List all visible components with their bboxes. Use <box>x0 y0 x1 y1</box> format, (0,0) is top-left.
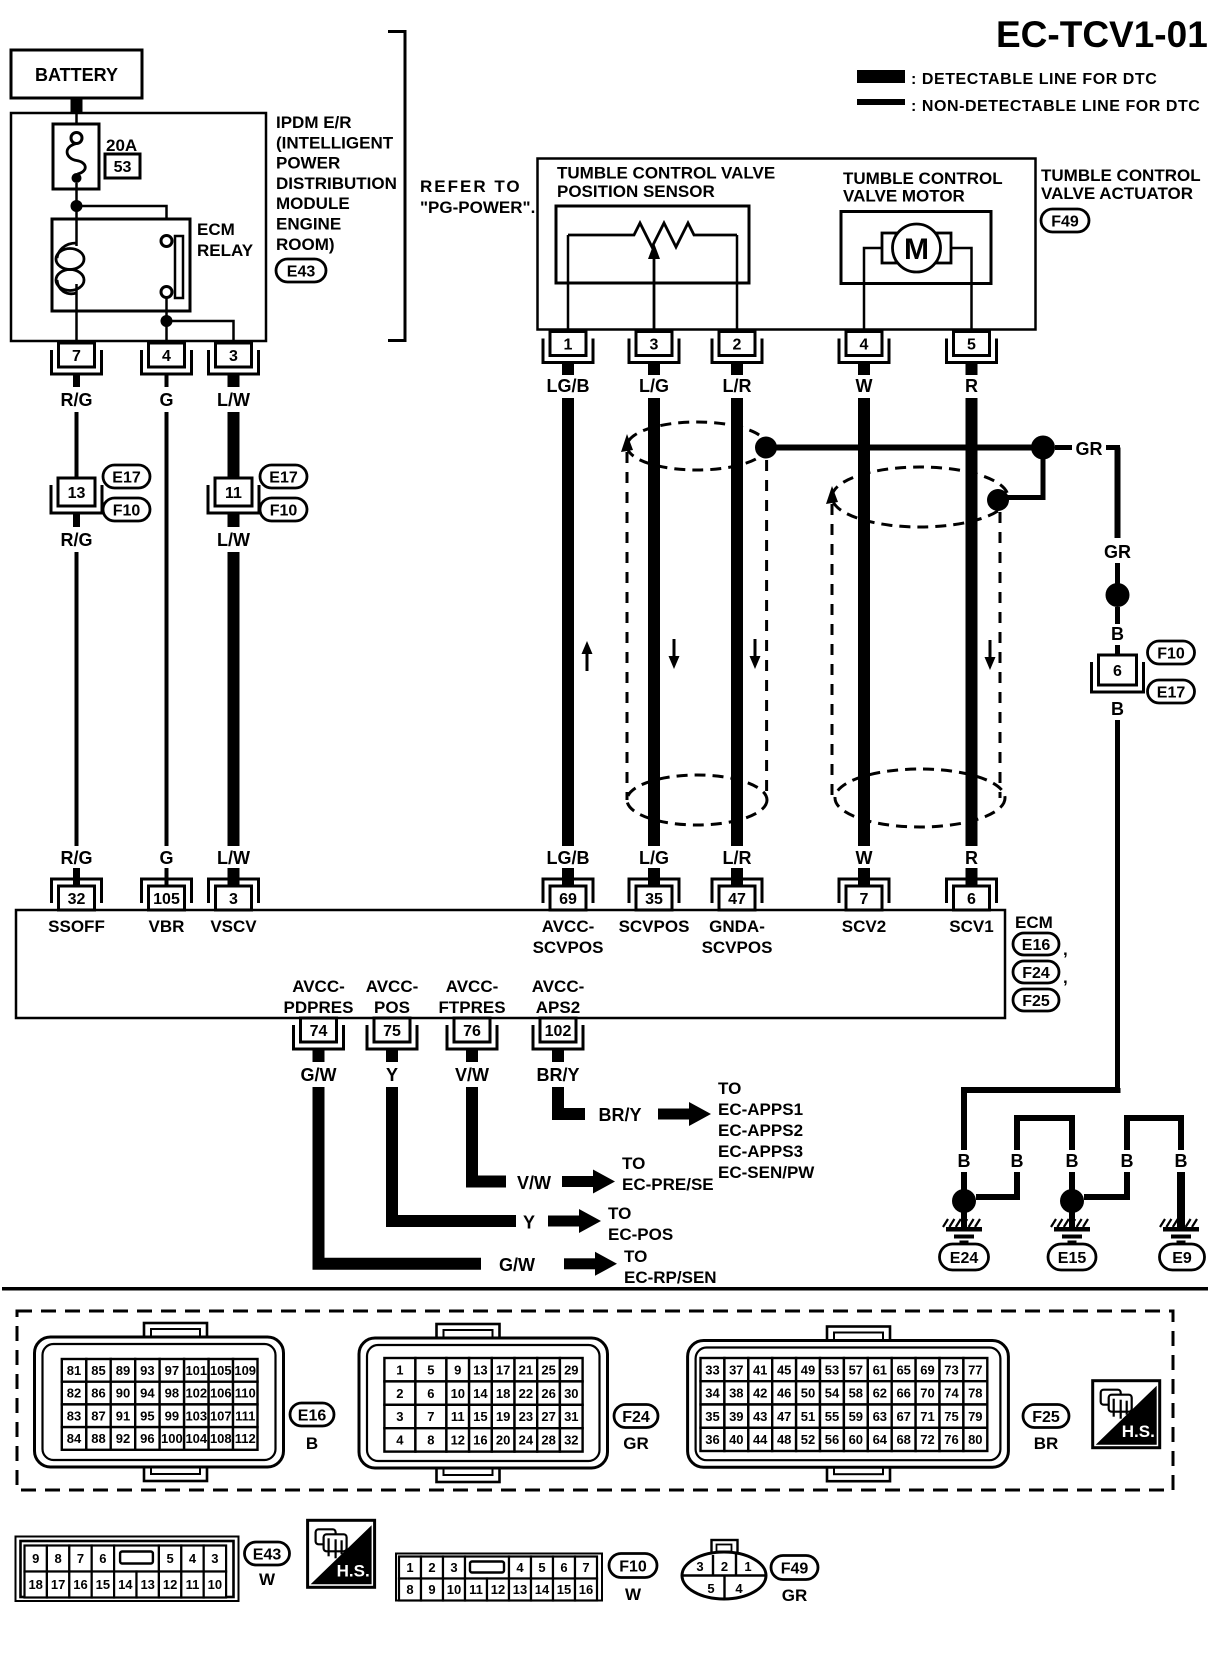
svg-text:53: 53 <box>114 159 132 176</box>
wire LG/B long <box>562 398 574 846</box>
svg-text:W: W <box>856 376 873 396</box>
svg-text:6: 6 <box>967 891 976 908</box>
legend detectable line <box>857 70 1157 88</box>
svg-text:3: 3 <box>211 1551 218 1566</box>
svg-text:B: B <box>1111 624 1124 644</box>
svg-text:53: 53 <box>825 1362 839 1377</box>
connector face E16 (ECM 81-112) <box>35 1323 284 1481</box>
svg-text:L/R: L/R <box>723 848 752 868</box>
wire L/G to ECM <box>648 868 660 887</box>
svg-text:R/G: R/G <box>60 390 92 410</box>
wire L/G long <box>648 398 660 846</box>
svg-text:TUMBLE CONTROL: TUMBLE CONTROL <box>843 169 1003 188</box>
svg-text:5: 5 <box>166 1551 173 1566</box>
wire B elbow to grounds <box>964 1088 1118 1150</box>
svg-text:EC-APPS1: EC-APPS1 <box>718 1100 803 1119</box>
wire stub W <box>858 363 870 376</box>
wire GR down right <box>1115 448 1121 539</box>
svg-text:E43: E43 <box>287 263 316 280</box>
svg-text:LG/B: LG/B <box>547 848 590 868</box>
svg-text:F49: F49 <box>1051 213 1079 230</box>
svg-text:B: B <box>1111 699 1124 719</box>
svg-text:44: 44 <box>753 1432 768 1447</box>
wire stub L/W <box>228 374 240 387</box>
svg-text:F10: F10 <box>270 502 298 519</box>
svg-text:TO: TO <box>622 1154 645 1173</box>
label V/W <box>455 1065 489 1085</box>
svg-text:APS2: APS2 <box>536 998 580 1017</box>
svg-text:6: 6 <box>560 1560 567 1575</box>
svg-text:VALVE MOTOR: VALVE MOTOR <box>843 187 965 206</box>
svg-text:G: G <box>159 848 173 868</box>
wire motor left to terminal 4 <box>864 248 882 331</box>
svg-text:58: 58 <box>849 1386 863 1401</box>
svg-text:23: 23 <box>519 1409 533 1424</box>
svg-text:74: 74 <box>944 1386 959 1401</box>
svg-text:SCV2: SCV2 <box>842 917 886 936</box>
label G <box>159 390 173 410</box>
connector face F49 (1-5) <box>682 1540 766 1599</box>
svg-text:68: 68 <box>896 1432 910 1447</box>
svg-text:98: 98 <box>165 1386 179 1401</box>
svg-text:90: 90 <box>116 1386 130 1401</box>
ground loop U2 <box>1017 1118 1072 1150</box>
battery <box>11 50 142 98</box>
svg-text:AVCC-: AVCC- <box>532 977 585 996</box>
svg-text:L/G: L/G <box>639 848 669 868</box>
svg-text:78: 78 <box>968 1386 982 1401</box>
svg-text:89: 89 <box>116 1363 130 1378</box>
svg-text:1: 1 <box>564 336 573 353</box>
svg-text:R/G: R/G <box>60 848 92 868</box>
wire stub BR/Y <box>552 1050 564 1062</box>
svg-text:E15: E15 <box>1058 1250 1087 1267</box>
svg-text:26: 26 <box>541 1386 555 1401</box>
pin label SCV2 <box>842 917 886 936</box>
svg-text:ECM: ECM <box>197 220 235 239</box>
terminal 74 ECM bottom <box>294 1018 344 1049</box>
svg-text:34: 34 <box>705 1386 720 1401</box>
svg-text:76: 76 <box>944 1432 958 1447</box>
pin label SSOFF <box>48 917 105 936</box>
connector ref F10 oval 2 <box>260 498 307 521</box>
connector 11 E17/F10 <box>208 478 259 513</box>
svg-text:108: 108 <box>210 1431 232 1446</box>
wire Y to arrow <box>392 1087 516 1221</box>
svg-text:46: 46 <box>777 1386 791 1401</box>
wire stub below 11 <box>228 513 240 527</box>
label B ground 964 <box>958 1151 971 1171</box>
svg-text:2: 2 <box>396 1386 403 1401</box>
svg-text:103: 103 <box>185 1408 207 1423</box>
svg-text:31: 31 <box>564 1409 578 1424</box>
pin label AVCC-FTPRES <box>438 977 505 1017</box>
svg-text:2: 2 <box>721 1559 728 1574</box>
svg-text:GR: GR <box>1076 439 1103 459</box>
svg-text:107: 107 <box>210 1408 232 1423</box>
svg-text:11: 11 <box>186 1577 200 1592</box>
wire junction2 to terminal 4 <box>165 321 168 341</box>
wire BR/Y to arrow <box>558 1087 585 1114</box>
pin label SCVPOS <box>619 917 690 936</box>
svg-text:B: B <box>1121 1151 1134 1171</box>
svg-text:R: R <box>965 376 978 396</box>
label L/W mid <box>217 530 250 550</box>
svg-text:EC-TCV1-01: EC-TCV1-01 <box>996 14 1208 55</box>
svg-text:13: 13 <box>513 1582 527 1597</box>
svg-text:14: 14 <box>118 1577 133 1592</box>
wire L/R long <box>731 398 743 846</box>
wire B1 to dot <box>961 1172 967 1190</box>
svg-text:6: 6 <box>99 1551 106 1566</box>
bracket refer to PG-POWER <box>388 32 405 341</box>
svg-text:2: 2 <box>733 336 742 353</box>
label R/G <box>60 390 92 410</box>
wire L/R to ECM <box>731 868 743 887</box>
wire R/G long <box>75 552 79 846</box>
terminal 3 ECM <box>209 879 259 910</box>
svg-text:ECM: ECM <box>1015 913 1053 932</box>
svg-text:SCVPOS: SCVPOS <box>619 917 690 936</box>
svg-text:65: 65 <box>896 1362 910 1377</box>
svg-text:W: W <box>259 1570 276 1589</box>
svg-text:(INTELLIGENT: (INTELLIGENT <box>276 133 394 152</box>
dashed detail box <box>17 1311 1173 1490</box>
junction dot shield right <box>987 489 1009 511</box>
junction dot relay output <box>161 315 173 327</box>
terminal 7 ECM <box>839 879 889 910</box>
label Y inline <box>523 1213 535 1233</box>
connector 13 E17/F10 <box>51 478 102 513</box>
svg-text:66: 66 <box>896 1386 910 1401</box>
svg-text:"PG-POWER".: "PG-POWER". <box>420 198 535 217</box>
svg-text:35: 35 <box>645 891 663 908</box>
svg-text:H.S.: H.S. <box>1122 1422 1155 1441</box>
wire sensor right to terminal 2 <box>736 235 739 331</box>
svg-text:85: 85 <box>91 1363 105 1378</box>
svg-text:POWER: POWER <box>276 154 340 173</box>
pin label AVCC-APS2 <box>532 977 585 1017</box>
svg-text:GR: GR <box>1104 542 1131 562</box>
svg-text:24: 24 <box>519 1433 534 1448</box>
wire B4 elbow to dot2 <box>1084 1172 1127 1197</box>
connector ref F10 oval 3 <box>1148 641 1195 664</box>
junction dot shield left <box>755 437 777 459</box>
wire R long <box>966 398 978 846</box>
svg-text:5: 5 <box>538 1560 545 1575</box>
terminal 6 ECM <box>947 879 997 910</box>
svg-text:EC-POS: EC-POS <box>608 1225 673 1244</box>
svg-text:105: 105 <box>210 1363 232 1378</box>
svg-text:7: 7 <box>582 1560 589 1575</box>
wiper arrow to terminal 3 <box>648 243 660 331</box>
svg-text:1: 1 <box>744 1559 751 1574</box>
text TO EC-APPS1/2/3 EC-SEN/PW <box>718 1079 815 1182</box>
svg-text:VBR: VBR <box>149 917 185 936</box>
ref F49 oval + GR <box>771 1556 818 1606</box>
terminal 75 ECM bottom <box>367 1018 417 1049</box>
pin label VSCV <box>210 917 257 936</box>
svg-text:POSITION SENSOR: POSITION SENSOR <box>557 182 715 201</box>
svg-text:54: 54 <box>825 1386 840 1401</box>
connector face F25 (ECM 33-80) <box>688 1327 1009 1482</box>
connector ref E16 oval <box>1013 933 1068 959</box>
wire stub LG/B <box>562 363 574 376</box>
connector face E43 (IPDM 1-18) <box>16 1537 239 1602</box>
label GR right of dot <box>1055 439 1120 459</box>
svg-text:20A: 20A <box>106 136 137 155</box>
svg-text:70: 70 <box>920 1386 934 1401</box>
wire G long <box>165 412 169 846</box>
svg-text:3: 3 <box>396 1409 403 1424</box>
position sensor label <box>557 164 775 202</box>
IPDM E/R box E43 <box>11 113 266 341</box>
terminal 1 actuator <box>543 332 593 363</box>
label BR/Y <box>536 1065 579 1085</box>
svg-text:22: 22 <box>519 1386 533 1401</box>
svg-text:R: R <box>965 848 978 868</box>
junction dot ground E15 <box>1060 1189 1084 1213</box>
svg-text:E24: E24 <box>950 1250 979 1267</box>
svg-text:2: 2 <box>428 1560 435 1575</box>
svg-text:TO: TO <box>624 1247 647 1266</box>
svg-text:92: 92 <box>116 1431 130 1446</box>
svg-text:7: 7 <box>427 1409 434 1424</box>
svg-text:TO: TO <box>608 1204 631 1223</box>
svg-text:VALVE ACTUATOR: VALVE ACTUATOR <box>1041 184 1193 203</box>
svg-text:F25: F25 <box>1032 1409 1060 1426</box>
svg-text:GR: GR <box>782 1586 808 1605</box>
svg-text:11: 11 <box>225 485 242 502</box>
svg-text:M: M <box>904 233 929 266</box>
wire B3 to dot2 <box>1069 1172 1075 1190</box>
svg-text:F25: F25 <box>1022 993 1050 1010</box>
text TO EC-POS <box>608 1204 673 1244</box>
svg-text:83: 83 <box>67 1408 81 1423</box>
text TO EC-RP/SEN <box>624 1247 717 1287</box>
svg-text:59: 59 <box>849 1409 863 1424</box>
ref F10 oval + W <box>609 1554 657 1605</box>
svg-text:75: 75 <box>383 1023 401 1040</box>
direction arrow down L/G <box>669 639 680 669</box>
svg-text:: DETECTABLE LINE FOR DTC: : DETECTABLE LINE FOR DTC <box>911 71 1157 88</box>
svg-text:14: 14 <box>473 1386 488 1401</box>
ECM box <box>16 910 1005 1018</box>
ground symbol E15 <box>1051 1219 1090 1245</box>
svg-text:16: 16 <box>579 1582 593 1597</box>
svg-text:SCVPOS: SCVPOS <box>533 938 604 957</box>
actuator label + F49 <box>1041 166 1201 203</box>
H.S. logo box 1 <box>1093 1381 1160 1448</box>
svg-text:87: 87 <box>91 1408 105 1423</box>
svg-text:25: 25 <box>541 1362 555 1377</box>
svg-text:80: 80 <box>968 1432 982 1447</box>
svg-text:3: 3 <box>450 1560 457 1575</box>
label G/W inline <box>499 1255 535 1275</box>
svg-text:101: 101 <box>185 1363 207 1378</box>
terminal 69 ECM <box>543 879 593 910</box>
svg-text:32: 32 <box>564 1433 578 1448</box>
svg-text:6: 6 <box>427 1386 434 1401</box>
svg-text:71: 71 <box>920 1409 934 1424</box>
wire stub G/W <box>313 1050 325 1062</box>
svg-text:1: 1 <box>396 1362 403 1377</box>
svg-text:69: 69 <box>920 1362 934 1377</box>
svg-text:99: 99 <box>165 1408 179 1423</box>
svg-text:81: 81 <box>67 1363 81 1378</box>
wire R/G to ECM <box>73 868 80 887</box>
svg-text:48: 48 <box>777 1432 791 1447</box>
svg-text:7: 7 <box>860 891 869 908</box>
svg-text:7: 7 <box>77 1551 84 1566</box>
label G lower <box>159 848 173 868</box>
IPDM label block <box>276 113 397 254</box>
svg-text:BATTERY: BATTERY <box>35 65 118 85</box>
wire contact to junction2 <box>165 297 168 321</box>
ref F24 oval + GR <box>614 1405 658 1454</box>
ground loop U3 <box>1127 1118 1181 1150</box>
svg-text:9: 9 <box>428 1582 435 1597</box>
svg-text:F24: F24 <box>622 1409 650 1426</box>
terminal 35 ECM <box>629 879 679 910</box>
direction arrow up LG/B <box>582 641 593 671</box>
ref F25 oval + BR <box>1023 1405 1069 1454</box>
connector ref F25 oval <box>1013 989 1059 1011</box>
junction dot fuse/relay <box>71 200 83 212</box>
motor M <box>882 224 951 272</box>
svg-text:39: 39 <box>729 1409 743 1424</box>
svg-text:Y: Y <box>523 1213 535 1233</box>
wire L/W long <box>228 552 240 846</box>
terminal 4 IPDM <box>142 343 192 374</box>
svg-text:50: 50 <box>801 1386 815 1401</box>
svg-text:63: 63 <box>873 1409 887 1424</box>
svg-text:55: 55 <box>825 1409 839 1424</box>
svg-text:AVCC-: AVCC- <box>366 977 419 996</box>
wire sensor left to terminal 1 <box>567 235 570 331</box>
terminal 3 actuator <box>629 332 679 363</box>
position sensor box <box>556 206 749 283</box>
wire into fuse <box>75 113 78 133</box>
label L/R <box>723 376 752 396</box>
svg-text:IPDM E/R: IPDM E/R <box>276 113 352 132</box>
svg-text:110: 110 <box>235 1386 256 1401</box>
svg-text:V/W: V/W <box>517 1173 551 1193</box>
pin label AVCC-/SCVPOS <box>533 917 604 957</box>
svg-text:4: 4 <box>735 1581 743 1596</box>
svg-text:E43: E43 <box>253 1546 282 1563</box>
label G/W <box>301 1065 337 1085</box>
wire G to ECM <box>165 868 169 887</box>
svg-text:B: B <box>958 1151 971 1171</box>
svg-text:11: 11 <box>451 1409 465 1424</box>
REFER TO PG-POWER text <box>420 177 535 217</box>
svg-text:38: 38 <box>729 1386 743 1401</box>
svg-text:12: 12 <box>491 1582 505 1597</box>
svg-text:10: 10 <box>208 1577 222 1592</box>
svg-text:TUMBLE CONTROL VALVE: TUMBLE CONTROL VALVE <box>557 164 775 183</box>
wire B to connector 6 <box>1115 645 1120 655</box>
svg-text:5: 5 <box>967 336 976 353</box>
svg-text:RELAY: RELAY <box>197 241 254 260</box>
terminal 5 actuator <box>947 332 997 363</box>
svg-text:95: 95 <box>140 1408 154 1423</box>
svg-text:21: 21 <box>519 1362 533 1377</box>
text TO EC-PRE/SE <box>622 1154 714 1194</box>
svg-text:112: 112 <box>235 1431 256 1446</box>
svg-text:17: 17 <box>496 1362 510 1377</box>
wire dot to B label <box>1115 607 1120 624</box>
svg-text:102: 102 <box>545 1023 572 1040</box>
label L/W lower <box>217 848 250 868</box>
svg-text:56: 56 <box>825 1432 839 1447</box>
svg-text:G/W: G/W <box>499 1255 535 1275</box>
label V/W inline <box>517 1173 551 1193</box>
label L/G lower <box>639 848 669 868</box>
svg-text:SSOFF: SSOFF <box>48 917 105 936</box>
label B ground 1127 <box>1121 1151 1134 1171</box>
terminal 47 ECM <box>712 879 762 910</box>
arrow to EC-APPS <box>658 1102 711 1126</box>
svg-text:GR: GR <box>623 1434 649 1453</box>
svg-text:ROOM): ROOM) <box>276 235 335 254</box>
svg-text:4: 4 <box>860 336 869 353</box>
svg-text:93: 93 <box>140 1363 154 1378</box>
svg-text:3: 3 <box>650 336 659 353</box>
svg-text:16: 16 <box>473 1433 487 1448</box>
relay contact <box>161 236 183 299</box>
svg-text:75: 75 <box>944 1409 958 1424</box>
svg-text:62: 62 <box>873 1386 887 1401</box>
svg-text:17: 17 <box>51 1577 65 1592</box>
junction dot GR/B <box>1106 583 1130 607</box>
terminal 2 actuator <box>712 332 762 363</box>
svg-text:L/W: L/W <box>217 530 250 550</box>
arrow to EC-RP/SEN <box>564 1252 617 1276</box>
svg-text:64: 64 <box>873 1432 888 1447</box>
svg-text:4: 4 <box>189 1551 197 1566</box>
wire W long <box>858 398 870 846</box>
svg-text:13: 13 <box>68 485 86 502</box>
connector ref F10 oval <box>103 498 150 521</box>
wire stub G <box>165 374 169 387</box>
ref E43 oval + W <box>245 1542 290 1589</box>
svg-text:,: , <box>1063 968 1068 987</box>
svg-text:EC-APPS3: EC-APPS3 <box>718 1142 803 1161</box>
svg-text:BR/Y: BR/Y <box>598 1105 641 1125</box>
svg-text:E9: E9 <box>1172 1250 1192 1267</box>
svg-text:L/R: L/R <box>723 376 752 396</box>
wire G/W to arrow <box>319 1087 482 1264</box>
svg-text:BR: BR <box>1034 1434 1059 1453</box>
svg-text:41: 41 <box>753 1362 767 1377</box>
svg-text:45: 45 <box>777 1362 791 1377</box>
svg-text:27: 27 <box>541 1409 555 1424</box>
svg-text:18: 18 <box>496 1386 510 1401</box>
svg-text:3: 3 <box>229 891 238 908</box>
label W <box>856 376 873 396</box>
ground ref E24 oval <box>940 1244 989 1270</box>
arrow to EC-POS <box>548 1209 601 1233</box>
label B above connector 6 <box>1111 624 1124 644</box>
svg-text:B: B <box>1011 1151 1024 1171</box>
ground symbol E9 <box>1160 1219 1199 1245</box>
connector ref E17 oval <box>103 465 150 488</box>
junction dot drain right <box>1031 436 1055 460</box>
svg-text:12: 12 <box>451 1433 465 1448</box>
svg-text:MODULE: MODULE <box>276 194 350 213</box>
direction arrow down R shield <box>985 640 996 670</box>
